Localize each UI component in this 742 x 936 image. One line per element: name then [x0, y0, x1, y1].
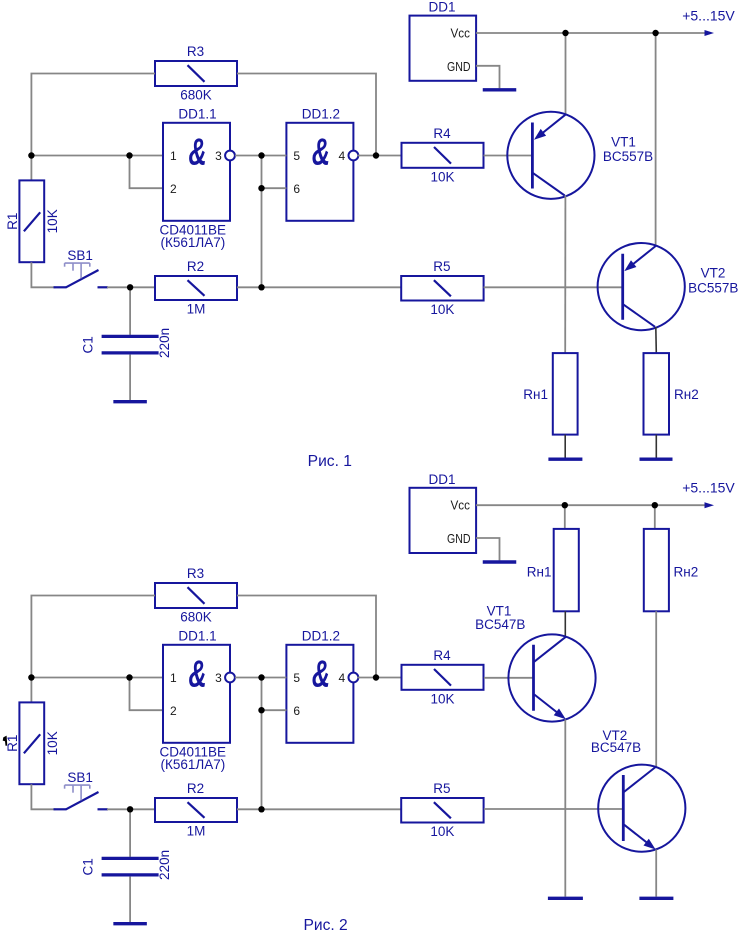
svg-text:Rн2: Rн2	[674, 565, 699, 580]
svg-text:10K: 10K	[45, 209, 60, 233]
svg-text:+5...15V: +5...15V	[682, 480, 735, 496]
svg-text:BC547B: BC547B	[591, 740, 641, 755]
svg-text:R1: R1	[5, 735, 20, 752]
svg-text:(К561ЛА7): (К561ЛА7)	[161, 757, 226, 772]
svg-text:R2: R2	[187, 781, 204, 796]
svg-text:220n: 220n	[157, 850, 172, 880]
svg-text:GND: GND	[447, 531, 471, 546]
svg-text:DD1.2: DD1.2	[302, 628, 340, 643]
svg-text:2: 2	[170, 704, 177, 718]
svg-text:(К561ЛА7): (К561ЛА7)	[161, 235, 226, 250]
svg-text:DD1.1: DD1.1	[178, 106, 216, 121]
svg-text:10K: 10K	[45, 731, 60, 755]
svg-text:BC557B: BC557B	[688, 281, 738, 296]
svg-text:SB1: SB1	[67, 248, 93, 263]
svg-text:3: 3	[215, 671, 222, 685]
svg-text:1: 1	[170, 671, 177, 685]
svg-text:&: &	[312, 652, 330, 694]
svg-text:10K: 10K	[430, 824, 454, 839]
svg-text:Rн2: Rн2	[674, 387, 699, 402]
svg-text:R4: R4	[433, 126, 451, 141]
svg-text:Vcc: Vcc	[451, 498, 471, 513]
svg-text:220n: 220n	[157, 328, 172, 358]
svg-text:R4: R4	[433, 648, 451, 663]
svg-text:R3: R3	[187, 566, 204, 581]
svg-text:4: 4	[339, 149, 346, 163]
svg-text:&: &	[188, 652, 206, 694]
svg-text:4: 4	[339, 671, 346, 685]
svg-text:680K: 680K	[180, 88, 212, 103]
svg-text:DD1: DD1	[428, 0, 455, 15]
svg-text:6: 6	[293, 704, 300, 718]
svg-text:3: 3	[215, 149, 222, 163]
svg-text:GND: GND	[447, 59, 471, 74]
svg-text:C1: C1	[81, 858, 96, 875]
svg-text:&: &	[312, 130, 330, 172]
svg-text:+5...15V: +5...15V	[682, 7, 735, 23]
svg-text:SB1: SB1	[67, 770, 93, 785]
svg-text:Vcc: Vcc	[451, 25, 471, 40]
svg-text:R3: R3	[187, 44, 204, 59]
svg-text:VT1: VT1	[611, 135, 636, 150]
svg-text:1M: 1M	[187, 824, 206, 839]
svg-text:10K: 10K	[430, 302, 454, 317]
svg-text:5: 5	[293, 671, 300, 685]
svg-text:BC547B: BC547B	[475, 617, 525, 632]
svg-text:Рис. 1: Рис. 1	[308, 453, 352, 470]
svg-text:Rн1: Rн1	[527, 565, 552, 580]
svg-text:VT2: VT2	[701, 265, 726, 280]
svg-text:R2: R2	[187, 259, 204, 274]
svg-text:&: &	[188, 130, 206, 172]
svg-text:DD1.2: DD1.2	[302, 106, 340, 121]
svg-text:R5: R5	[433, 781, 450, 796]
svg-text:2: 2	[170, 182, 177, 196]
svg-text:1M: 1M	[187, 302, 206, 317]
svg-text:5: 5	[293, 149, 300, 163]
svg-text:C1: C1	[81, 336, 96, 353]
svg-text:10K: 10K	[430, 691, 454, 706]
svg-text:R1: R1	[5, 213, 20, 230]
svg-text:DD1: DD1	[428, 472, 455, 487]
svg-text:R5: R5	[433, 259, 450, 274]
svg-text:10K: 10K	[430, 169, 454, 184]
svg-text:Rн1: Rн1	[523, 387, 548, 402]
svg-text:Рис. 2: Рис. 2	[303, 917, 347, 934]
svg-text:BC557B: BC557B	[603, 149, 653, 164]
svg-text:680K: 680K	[180, 610, 212, 625]
svg-text:1: 1	[170, 149, 177, 163]
svg-text:6: 6	[293, 182, 300, 196]
svg-text:DD1.1: DD1.1	[178, 628, 216, 643]
